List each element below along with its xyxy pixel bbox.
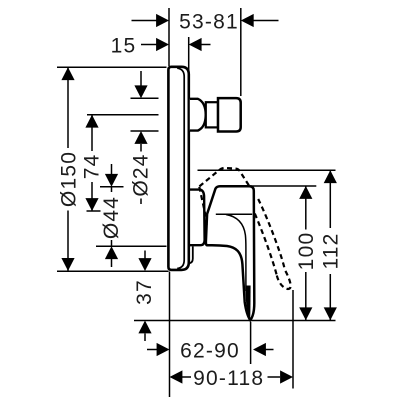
extension line dim74-bottom [87,210,101,212]
dim 112 [320,170,343,320]
dashed grip swing left [255,214,277,276]
svg-text:37: 37 [133,279,156,305]
svg-text:62-90: 62-90 [180,339,240,362]
extension line rosette-bottom [96,245,167,247]
extension line wall-top [168,8,170,66]
extension line plate-bottom [57,270,169,272]
extension line handle-tip [250,322,252,364]
dim 53-81 [132,10,279,33]
dim 15 [111,34,211,57]
extension line plate-front-top [188,37,190,75]
escutcheon plate inner contour [177,68,184,268]
handle base rosette [189,190,205,246]
lever grip black tip [245,286,250,320]
extension line handle-top [250,185,316,187]
svg-text:74: 74 [81,154,104,180]
svg-text:15: 15 [111,34,137,57]
svg-text:Ø24: Ø24 [130,153,153,196]
dim 74 [81,115,104,211]
dim 90-118 [170,367,294,390]
dashed grip swing tip [277,270,291,289]
extension line plate-top-left [57,66,167,68]
lever inner contour [226,215,246,292]
dashed handle raised back [199,187,207,228]
extension line spout-tip-top [240,8,242,96]
dim 37 [133,251,156,342]
lever paddle bottom contour [216,213,252,215]
dim 100 [295,186,318,320]
svg-text:112: 112 [320,232,343,269]
dashed grip swing right [258,199,285,270]
extension line pipe-top [131,97,159,99]
extension line baseline [134,320,336,322]
svg-text:53-81: 53-81 [179,10,239,33]
dashed handle raised top [199,168,249,187]
dim D150 [57,67,80,271]
lever handle solid [206,186,254,320]
svg-text:Ø44: Ø44 [100,196,123,239]
svg-text:100: 100 [295,232,318,271]
dim 62-90 [147,339,274,362]
extension line pipe-bottom [131,130,159,132]
extension line handle-up-tip [292,290,294,389]
spout small cylinder [206,102,218,127]
spout outlet cylinder [218,98,241,131]
extension line rosette-top [100,186,124,188]
escutcheon plate outer [168,67,188,270]
extension line handle-up-top [198,169,336,171]
extension line wall-bottom [169,272,171,398]
dim D24 [130,71,153,204]
spout ball joint [190,99,206,131]
valve body stub [189,246,193,263]
svg-text:90-118: 90-118 [193,367,264,390]
dim D44 [100,164,123,267]
svg-text:Ø150: Ø150 [57,151,80,207]
extension line pipe-centerline [87,114,159,116]
